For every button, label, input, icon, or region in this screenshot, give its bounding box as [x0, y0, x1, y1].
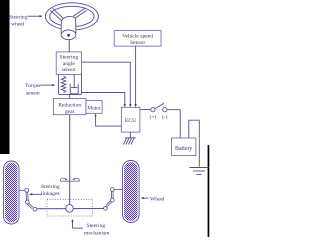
svg-text:Torque: Torque	[25, 83, 41, 89]
svg-text:Steering: Steering	[9, 15, 28, 21]
svg-text:(-): (-)	[162, 114, 168, 121]
svg-text:angle: angle	[63, 61, 76, 67]
svg-text:(+): (+)	[150, 114, 157, 121]
svg-text:Sensor: Sensor	[130, 40, 145, 46]
svg-text:Steering: Steering	[41, 184, 60, 190]
svg-text:Wheel: Wheel	[150, 197, 165, 203]
svg-text:sensor: sensor	[62, 67, 76, 73]
svg-text:Steering: Steering	[59, 55, 78, 61]
svg-text:mechanism: mechanism	[84, 231, 110, 237]
svg-text:linkages: linkages	[41, 191, 60, 197]
svg-text:sensor: sensor	[26, 90, 40, 96]
svg-text:gear: gear	[65, 109, 75, 115]
svg-text:Motor: Motor	[87, 105, 100, 111]
svg-text:Battery: Battery	[175, 146, 192, 152]
svg-text:wheel: wheel	[11, 22, 25, 28]
svg-text:Reduction: Reduction	[58, 102, 81, 108]
svg-text:Steering: Steering	[87, 223, 106, 229]
svg-text:Vehicle speed: Vehicle speed	[122, 34, 153, 40]
svg-text:ECU: ECU	[125, 118, 136, 124]
